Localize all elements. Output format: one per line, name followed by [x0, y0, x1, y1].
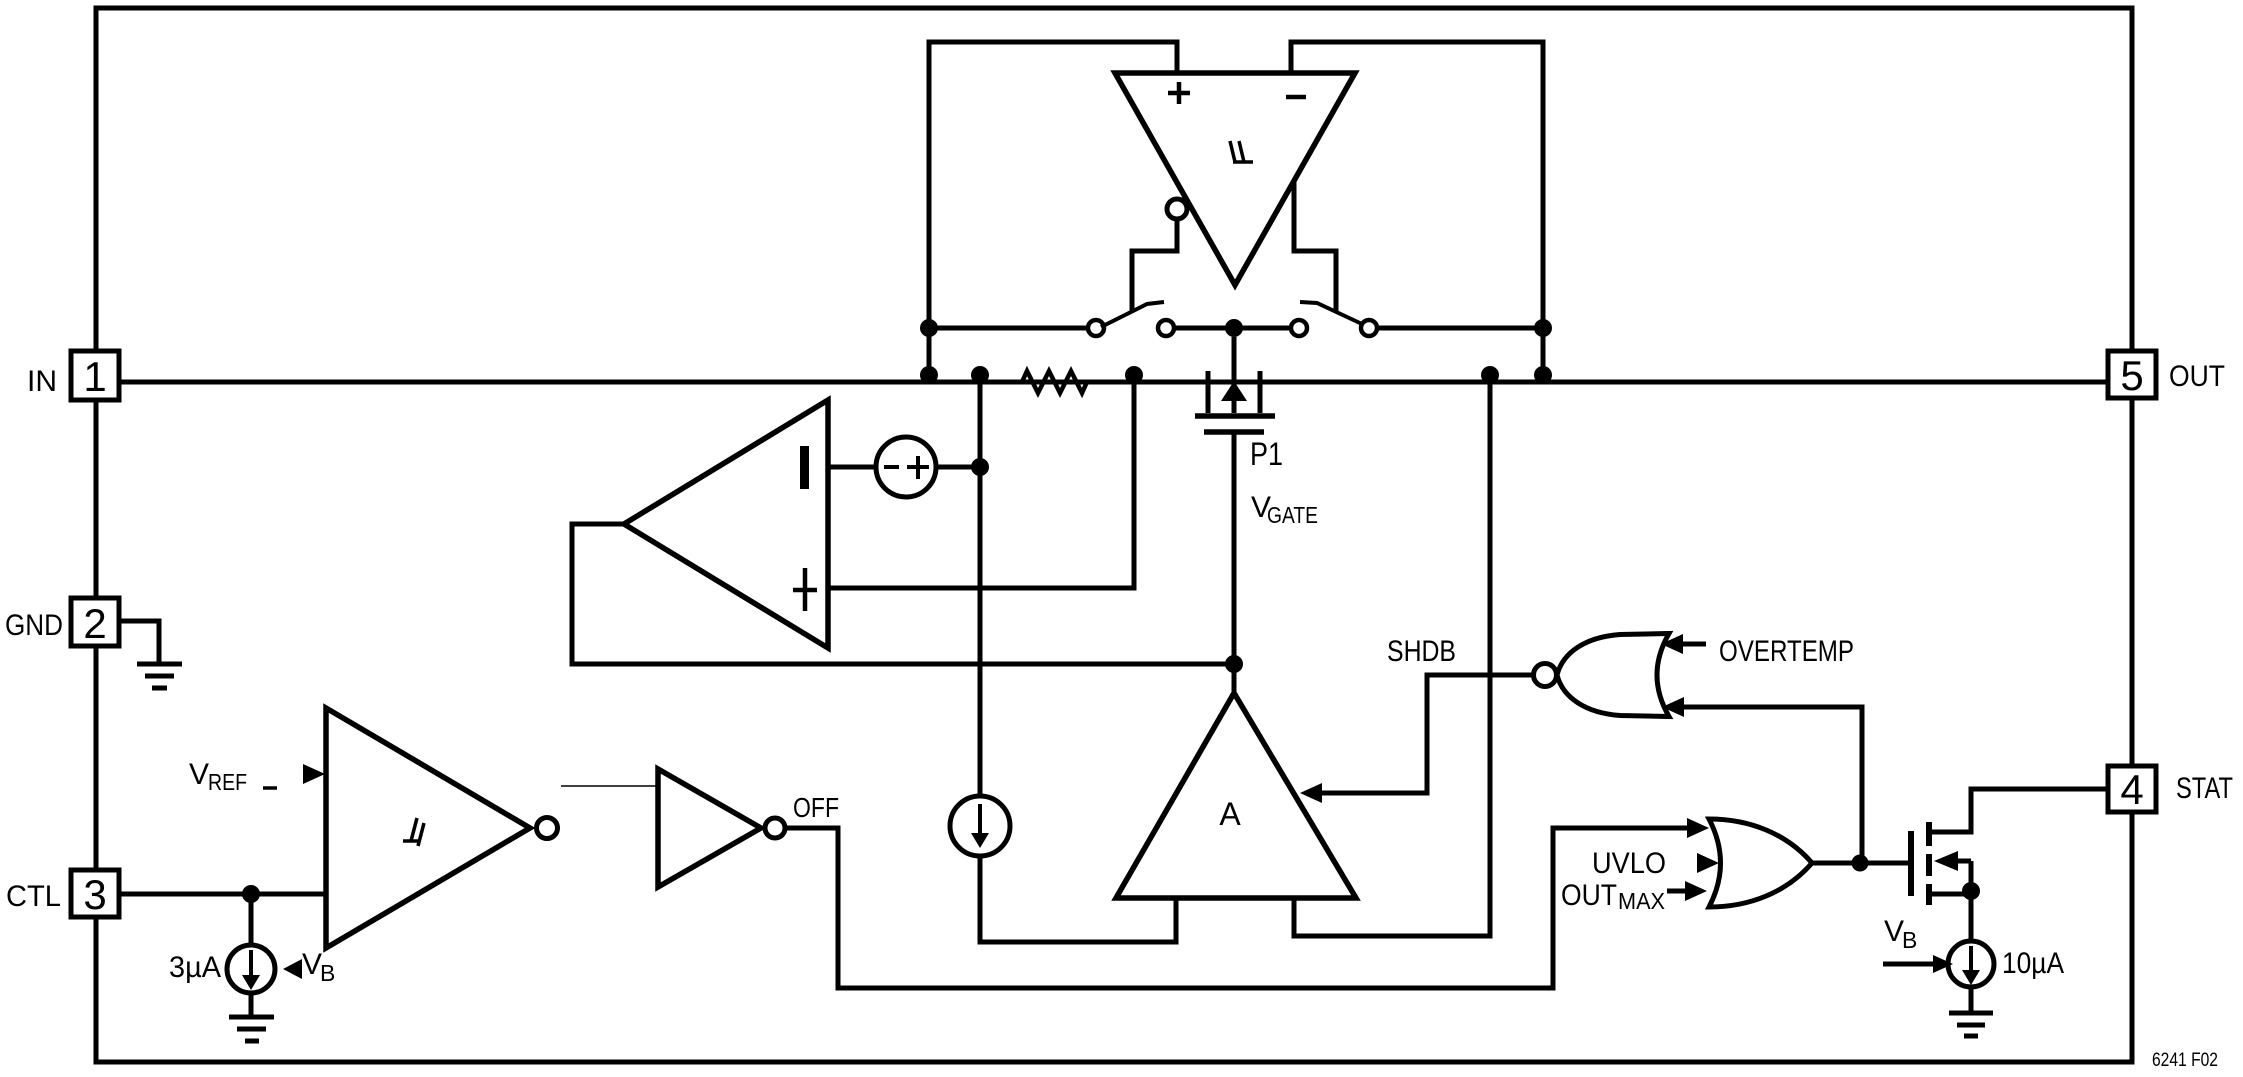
op-amp U2 + input label [793, 568, 817, 611]
wire sense vertical from main rail to current source I1 [978, 380, 983, 796]
arrowhead UVLO into U4 [1697, 853, 1719, 873]
ground below I2 [229, 993, 274, 1041]
node switch row right junction [1534, 319, 1552, 337]
svg-text:OVERTEMP: OVERTEMP [1719, 635, 1854, 668]
svg-text:OUT: OUT [2169, 360, 2225, 393]
svg-text:B: B [1902, 927, 1917, 953]
wire current source I1 to amp A left notch [980, 856, 1176, 942]
voltage source V1 offset [876, 437, 936, 497]
switch S1 arm [1101, 302, 1164, 327]
svg-text:5: 5 [2120, 352, 2143, 399]
voltage source V1 plus sign [907, 456, 929, 479]
hysteresis symbol inside U5 [403, 818, 424, 846]
switch S2 arm [1300, 302, 1362, 324]
svg-text:4: 4 [2120, 766, 2143, 813]
node switch row center junction [1225, 319, 1243, 337]
svg-text:10µA: 10µA [2002, 947, 2064, 980]
svg-text:OFF: OFF [793, 792, 839, 823]
wire Q1 drain to pin 4 [1929, 789, 2108, 832]
node offset-source tap junction [971, 458, 989, 476]
comparator U5 CTL threshold [326, 708, 530, 948]
wire U2 - input to offset source [828, 465, 876, 470]
svg-text:STAT: STAT [2176, 772, 2233, 805]
op-amp U2 inverting input bar [800, 446, 809, 489]
node main rail right feedback junction [1534, 366, 1552, 384]
pin 4 box [2108, 766, 2156, 812]
transistor Q1 gate bar [1908, 831, 1914, 896]
transistor P1 center body stub [1232, 337, 1237, 413]
arrowhead OUTMAX into U4 [1685, 881, 1707, 901]
arrowhead SHDB into amp A [1300, 783, 1322, 803]
arrowhead U3 lower input [1662, 697, 1684, 717]
ground below I3 [1949, 986, 1993, 1036]
transistor Q1 source arrow [1934, 851, 1958, 871]
svg-text:B: B [320, 960, 335, 986]
op-amp U2 reverse-current comparator [624, 400, 828, 648]
wire thin U5 output to inverter [561, 785, 657, 787]
node Q1 gate junction [1852, 855, 1869, 872]
wire offset source to sense node [936, 465, 980, 470]
wire switch row middle segment [1175, 326, 1290, 331]
node main rail A-amp sense junction [1481, 366, 1499, 384]
amplifier A gate driver [1116, 693, 1356, 898]
svg-text:UVLO: UVLO [1592, 847, 1666, 880]
svg-text:MAX: MAX [1618, 888, 1665, 914]
op-amp U1 + input label [1168, 82, 1190, 104]
wire main IN-OUT rail [119, 380, 2108, 385]
node switch row left junction [920, 319, 938, 337]
chopper symbol inside U1 [1230, 141, 1253, 162]
svg-text:SHDB: SHDB [1387, 635, 1456, 668]
pin 5 box [2108, 351, 2156, 398]
wire switch row right segment [1378, 326, 1543, 331]
gate U3 output bubble [1534, 664, 1557, 687]
switch S1 left contact [1088, 320, 1104, 336]
wire U4 output to Q1 gate [1812, 861, 1911, 866]
current source I1 arrow [978, 804, 982, 838]
wire switch row left segment [929, 326, 1087, 331]
svg-text:3µA: 3µA [169, 951, 221, 984]
transistor P1 gate bar [1204, 429, 1264, 435]
wire Q1 source to current source I3 [1969, 861, 1974, 942]
wire GND pin to ground [120, 621, 159, 662]
transistor P1 right stub [1258, 371, 1263, 413]
transistor Q1 source stub [1929, 892, 1971, 897]
transistor P1 left stub [1206, 371, 1211, 413]
arrowhead VB into I2 [283, 959, 302, 979]
svg-text:V: V [189, 758, 209, 791]
pin 3 box [71, 870, 119, 917]
wire OUTMAX input [1667, 889, 1690, 894]
wire OVERTEMP input [1679, 642, 1706, 647]
comparator U5 output bubble [537, 818, 558, 839]
wire U2 + input to resistor right node [828, 380, 1134, 588]
node main rail resistor right junction [1125, 366, 1143, 384]
node main rail left feedback junction [920, 366, 938, 384]
wire right feedback loop to top amp - input [1291, 42, 1543, 382]
svg-text:P1: P1 [1250, 436, 1283, 472]
node CTL junction [242, 885, 260, 903]
current source I3 10uA [1948, 941, 1994, 987]
svg-text:REF: REF [208, 769, 247, 795]
svg-text:V: V [1884, 915, 1904, 948]
wire VB arrow into I3 [1883, 962, 1936, 967]
wire CTL pin to U5 [119, 892, 326, 897]
arrowhead OFF into U4 [1687, 818, 1709, 838]
wire SHDB from NOR output to amp A [1318, 675, 1533, 793]
switch S1 right contact [1158, 320, 1174, 336]
ground at GND pin [137, 664, 182, 688]
voltage source V1 minus sign [884, 465, 899, 469]
wire VGATE from P1 gate to amp A apex [1232, 432, 1237, 693]
wire U3 lower input from STAT gate node [1680, 707, 1862, 863]
wire from U1 right edge to right switch arm [1294, 181, 1336, 312]
switch S2 right contact [1361, 320, 1377, 336]
current source I2 3uA [227, 945, 275, 993]
wire U2 output to VGATE node [572, 524, 1234, 664]
bubble on U1 left edge [1167, 199, 1187, 219]
pin 1 box [71, 351, 119, 400]
svg-text:OUT: OUT [1561, 879, 1617, 912]
wire CTL node to current source I2 [249, 894, 254, 945]
transistor P1 channel bar [1195, 413, 1275, 419]
node VGATE junction [1225, 655, 1243, 673]
transistor Q1 channel segments [1926, 822, 1932, 905]
op-amp U1 - input label [1286, 95, 1306, 100]
wire OFF signal from inverter to OR gate top input [786, 828, 1692, 988]
svg-text:GATE: GATE [1267, 502, 1318, 528]
gate U3 NOR (mirrored) [1557, 634, 1669, 717]
svg-text:3: 3 [83, 871, 106, 918]
label VREF minus [263, 786, 277, 790]
switch S2 left contact [1291, 320, 1307, 336]
svg-text:6241 F02: 6241 F02 [2152, 1050, 2218, 1071]
current source I1 [950, 796, 1010, 856]
wire from U1 bubble to left switch arm [1132, 220, 1177, 311]
svg-text:2: 2 [83, 600, 106, 647]
arrowhead OVERTEMP into U3 [1661, 634, 1683, 654]
node main rail offset-source junction [971, 366, 989, 384]
resistor internal sense on main rail [1022, 371, 1087, 393]
svg-text:IN: IN [27, 365, 57, 398]
svg-text:CTL: CTL [6, 880, 61, 913]
pin 2 box [71, 598, 119, 646]
wire amp A right notch to OUT sense [1294, 380, 1490, 936]
op-amp U1 top gate-drive amplifier [1115, 73, 1355, 285]
svg-text:GND: GND [5, 609, 63, 642]
svg-text:A: A [1219, 796, 1241, 832]
wire left feedback loop to top amp + input [929, 42, 1177, 382]
inverter U6 [658, 769, 761, 887]
svg-text:V: V [302, 948, 322, 981]
transistor P1 body diode arrow [1221, 381, 1247, 401]
svg-text:1: 1 [83, 353, 106, 400]
node Q1 source junction [1962, 882, 1980, 900]
inverter U6 bubble [765, 818, 785, 838]
gate U4 OR [1709, 819, 1812, 907]
arrowhead VREF into U5 [303, 764, 325, 784]
